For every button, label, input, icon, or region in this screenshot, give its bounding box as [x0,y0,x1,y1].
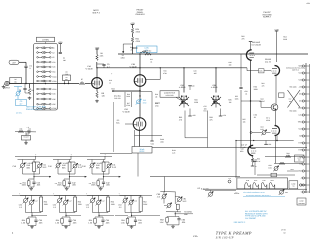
svg-text:.005: .005 [73,221,77,224]
svg-text:X50: X50 [52,71,55,74]
svg-text:½ 6DJ8: ½ 6DJ8 [86,67,94,70]
svg-text:ATTEN: ATTEN [42,39,49,42]
svg-text:2N2207: 2N2207 [259,100,265,103]
svg-text:150K: 150K [91,184,96,187]
svg-text:C40: C40 [82,165,85,168]
svg-text:.5-5: .5-5 [53,206,56,209]
svg-text:.01: .01 [254,116,257,119]
svg-text:EARLIER VALUES: EARLIER VALUES [26,108,43,111]
svg-text:.5-5: .5-5 [86,206,89,209]
svg-text:6.3: 6.3 [198,187,201,190]
svg-text:.005: .005 [72,184,76,187]
svg-text:SEE P 3: SEE P 3 [92,11,100,14]
svg-text:CAL: CAL [259,70,263,73]
svg-text:.5-5: .5-5 [19,206,22,209]
svg-text:TO CRT: TO CRT [23,137,28,139]
svg-text:½ 6DJ8: ½ 6DJ8 [130,65,138,68]
svg-text:X10: X10 [52,61,55,64]
svg-text:61: 61 [284,232,286,235]
svg-text:.005: .005 [106,221,110,224]
svg-text:6.3 V TO: 6.3 V TO [201,187,209,190]
svg-text:JT 59: JT 59 [281,229,286,232]
svg-text:C40: C40 [13,165,16,168]
svg-text:SUPPLY: SUPPLY [263,16,272,19]
svg-text:470K: 470K [136,30,141,33]
svg-text:.5-5: .5-5 [118,206,121,209]
svg-text:+225: +225 [298,72,302,75]
svg-text:+ 4: + 4 [27,126,29,129]
svg-text:5: 5 [30,67,31,70]
svg-text:8-50: 8-50 [143,101,147,104]
svg-text:.005: .005 [37,184,41,187]
svg-text:C40: C40 [48,165,51,168]
svg-text:GND: GND [298,170,303,173]
svg-text:47: 47 [81,80,83,83]
svg-text:120: 120 [102,94,105,97]
svg-text:BAL: BAL [116,121,119,124]
svg-text:3-12: 3-12 [112,166,116,169]
svg-text:.005: .005 [106,184,110,187]
svg-text:3-12: 3-12 [134,200,137,203]
svg-text:.005: .005 [39,221,43,224]
svg-text:TRIG: TRIG [298,121,303,124]
svg-text:.001: .001 [65,73,68,76]
svg-text:CAL V5: CAL V5 [265,60,271,63]
svg-text:CAL: CAL [299,114,303,117]
svg-text:.005: .005 [182,221,186,224]
svg-text:X1: X1 [52,47,54,50]
svg-text:3-12: 3-12 [34,200,37,203]
svg-text:+225: +225 [58,41,62,44]
svg-text:+350: +350 [306,2,310,5]
svg-text:150K: 150K [22,184,27,187]
svg-text:+350: +350 [298,65,302,68]
svg-text:TYPE K PREAMP: TYPE K PREAMP [216,230,252,235]
svg-text:X200: X200 [52,80,56,83]
svg-text:X5: X5 [52,56,54,59]
svg-text:.005: .005 [138,221,142,224]
svg-text:6DJ8: 6DJ8 [266,119,270,122]
svg-text:.5-5: .5-5 [157,195,160,198]
svg-text:10X PROBE: 10X PROBE [245,217,256,220]
svg-text:+225v: +225v [234,192,239,195]
svg-text:+100: +100 [253,159,257,162]
svg-text:SEE NOTE 2: SEE NOTE 2 [234,221,247,224]
svg-text:GAIN ADJ: GAIN ADJ [135,13,144,16]
svg-text:150K: 150K [57,184,62,187]
svg-text:C3 SEL: C3 SEL [16,112,22,115]
svg-text:+150: +150 [192,114,196,117]
svg-text:V4 ½ 6DJ8: V4 ½ 6DJ8 [251,43,260,46]
svg-text:3-12: 3-12 [43,166,47,169]
svg-text:INPUT: INPUT [4,87,11,90]
svg-text:½ 6DJ8: ½ 6DJ8 [123,110,131,113]
svg-text:R88: R88 [184,213,187,216]
svg-text:R102: R102 [140,150,145,153]
svg-text:X500: X500 [52,88,56,91]
svg-text:X100: X100 [52,75,56,78]
svg-text:+225: +225 [298,128,302,131]
svg-text:+150: +150 [222,114,226,117]
svg-text:3-12: 3-12 [68,200,71,203]
svg-text:6.3: 6.3 [300,163,303,166]
svg-text:R23 680: R23 680 [145,50,151,53]
svg-text:3-12: 3-12 [183,200,187,203]
svg-text:3-12: 3-12 [101,200,104,203]
svg-text:GND: GND [298,107,303,110]
svg-text:S/N 103-UP: S/N 103-UP [216,236,234,240]
svg-text:X20: X20 [52,66,55,69]
svg-text:X2: X2 [52,51,54,54]
svg-text:+150: +150 [298,79,302,82]
svg-text:SW: SW [299,135,302,138]
svg-text:470K: 470K [136,40,141,43]
svg-text:-150: -150 [298,86,302,89]
